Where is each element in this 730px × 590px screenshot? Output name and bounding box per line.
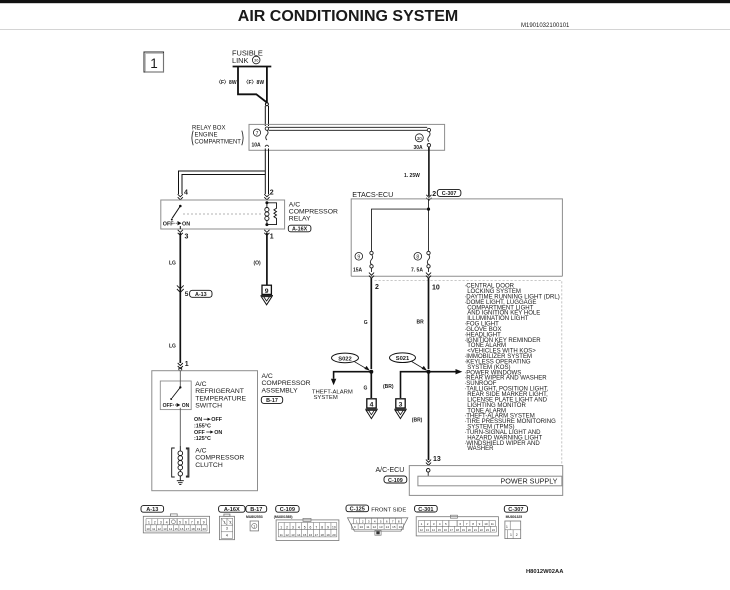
- svg-text:ON: ON: [182, 221, 190, 227]
- svg-text:8: 8: [197, 521, 199, 525]
- svg-text:OFF: OFF: [163, 403, 173, 409]
- svg-text:H8012W02AA: H8012W02AA: [526, 569, 564, 575]
- svg-text:A/C: A/C: [289, 201, 300, 208]
- wire (BR) to AC-ECU: [428, 372, 430, 460]
- load list text: [464, 284, 560, 453]
- svg-text:B-17: B-17: [250, 507, 262, 513]
- svg-text:1: 1: [506, 525, 508, 529]
- connector A-13: [141, 506, 164, 513]
- svg-text:4: 4: [166, 521, 168, 525]
- svg-text:10: 10: [484, 522, 488, 526]
- svg-text:COMPRESSOR: COMPRESSOR: [195, 455, 244, 462]
- svg-text:A-16X: A-16X: [292, 227, 308, 233]
- A/C compressor assembly box: [152, 371, 258, 491]
- svg-text:C-307: C-307: [442, 191, 457, 197]
- svg-text:16: 16: [309, 533, 313, 537]
- svg-text:3: 3: [160, 521, 162, 525]
- AC-ECU pin13 arrow: [426, 460, 431, 466]
- svg-text:20: 20: [332, 533, 336, 537]
- svg-text:C-307: C-307: [508, 507, 523, 513]
- svg-text:2: 2: [286, 526, 288, 530]
- temp switch box: [160, 381, 191, 410]
- wire: branch to relay pin4 (double line): [179, 171, 266, 194]
- svg-text:C-125: C-125: [350, 507, 365, 513]
- branch arrow to load list: [429, 369, 463, 374]
- svg-text:2: 2: [516, 533, 518, 537]
- fusible link symbol: [233, 67, 272, 104]
- svg-text:22: 22: [480, 528, 483, 532]
- svg-text:COMPRESSOR: COMPRESSOR: [262, 380, 311, 387]
- connector A-16X: [219, 506, 245, 513]
- svg-text:COMPARTMENT: COMPARTMENT: [195, 139, 242, 145]
- svg-text:2: 2: [270, 190, 274, 197]
- svg-text:16: 16: [444, 528, 447, 532]
- fuse 7 10A: [252, 127, 269, 149]
- svg-text:〈F〉8W: 〈F〉8W: [244, 80, 265, 86]
- svg-text:9: 9: [265, 288, 269, 295]
- svg-text:19: 19: [197, 527, 201, 531]
- svg-text:ON: ON: [182, 403, 190, 409]
- ECU exit arrows: [369, 273, 374, 279]
- svg-text:17: 17: [315, 533, 319, 537]
- svg-text:TEMPERATURE: TEMPERATURE: [195, 395, 246, 402]
- svg-text:LG: LG: [169, 260, 176, 266]
- temp spec text: [194, 417, 223, 442]
- svg-text:12: 12: [420, 528, 423, 532]
- svg-text:9: 9: [203, 521, 205, 525]
- svg-text:POWER SUPPLY: POWER SUPPLY: [501, 477, 558, 486]
- svg-text:18: 18: [321, 533, 325, 537]
- relay switch: [163, 205, 190, 229]
- svg-text:5: 5: [179, 521, 181, 525]
- svg-text:1: 1: [510, 533, 512, 537]
- temp switch label: [195, 381, 246, 410]
- svg-text:1: 1: [148, 521, 150, 525]
- ground 4: [365, 399, 378, 419]
- svg-text:REFRIGERANT: REFRIGERANT: [195, 388, 244, 395]
- svg-text:1. 25W: 1. 25W: [404, 173, 420, 179]
- svg-text:14: 14: [432, 528, 435, 532]
- svg-text:1: 1: [253, 525, 255, 529]
- svg-text:16: 16: [180, 527, 184, 531]
- junction dot G: [369, 370, 373, 374]
- wire (O) pin1 down: [266, 233, 268, 285]
- A/C-ECU box: [409, 466, 562, 496]
- relay name label: [289, 201, 338, 222]
- temp switch contacts: [163, 371, 190, 446]
- wire: fuse7 to relay pin2 (double line): [265, 149, 268, 195]
- svg-text:4: 4: [298, 526, 300, 530]
- svg-text:14: 14: [386, 525, 390, 529]
- ETACS pin2 entry arrow: [426, 195, 431, 201]
- connector code C-307: [437, 189, 461, 197]
- svg-text:16: 16: [399, 525, 403, 529]
- svg-text:4: 4: [370, 401, 374, 408]
- pin1 exit arrow: [264, 230, 269, 236]
- svg-text:8: 8: [321, 526, 323, 530]
- svg-text:8: 8: [416, 255, 419, 261]
- svg-text:15: 15: [438, 528, 441, 532]
- fuse 9 15A: [353, 251, 373, 273]
- svg-text:3: 3: [399, 401, 403, 408]
- ground 3: [394, 399, 407, 419]
- wire: fuse30 down to ETACS pin2: [428, 147, 430, 196]
- svg-text:5: 5: [304, 526, 306, 530]
- svg-text:12: 12: [158, 527, 162, 531]
- assembly label: [262, 373, 311, 394]
- svg-text:ON: ON: [214, 430, 222, 436]
- svg-text:1: 1: [150, 56, 158, 71]
- svg-text:19: 19: [326, 533, 330, 537]
- svg-text:ETACS-ECU: ETACS-ECU: [352, 190, 393, 199]
- svg-text:COMPRESSOR: COMPRESSOR: [289, 208, 338, 215]
- svg-text:S022: S022: [338, 356, 352, 362]
- svg-text:A-13: A-13: [146, 507, 158, 513]
- connector C-125: [346, 505, 369, 512]
- svg-text:3: 3: [185, 234, 189, 241]
- svg-text:23: 23: [486, 528, 489, 532]
- svg-text:〈F〉8W: 〈F〉8W: [216, 80, 237, 86]
- wire LG pin3 down: [179, 233, 181, 363]
- assembly pin1 entry: [178, 363, 183, 369]
- svg-text:G: G: [364, 320, 368, 326]
- svg-text:13: 13: [163, 527, 167, 531]
- svg-text:A/C: A/C: [195, 381, 206, 388]
- svg-text:10: 10: [360, 525, 364, 529]
- svg-text:36: 36: [254, 58, 259, 63]
- svg-text:19: 19: [462, 528, 465, 532]
- svg-text:CLUTCH: CLUTCH: [195, 462, 223, 469]
- junction: [427, 208, 430, 211]
- svg-text:2: 2: [375, 284, 379, 291]
- clutch ground: [177, 476, 184, 485]
- svg-text:MU802553: MU802553: [246, 515, 263, 519]
- battery feed wire (double line): [265, 103, 268, 126]
- connector C-301: [415, 505, 438, 512]
- svg-text:(BR): (BR): [412, 417, 423, 423]
- relay box (engine compartment) outline: [249, 124, 445, 150]
- svg-text:4: 4: [226, 533, 228, 537]
- svg-text:SWITCH: SWITCH: [195, 403, 222, 410]
- svg-text:WASHER: WASHER: [467, 446, 494, 452]
- svg-text:9: 9: [327, 526, 329, 530]
- svg-text:21: 21: [474, 528, 477, 532]
- svg-text:18: 18: [191, 527, 195, 531]
- svg-text:(BR): (BR): [383, 384, 394, 390]
- branch to ground 3: [401, 372, 429, 398]
- svg-text:6: 6: [310, 526, 312, 530]
- svg-text:OFF: OFF: [194, 430, 205, 436]
- fuse 8 7.5A: [411, 251, 430, 273]
- connector code A-16X: [288, 225, 311, 232]
- svg-text:(MU801585): (MU801585): [274, 515, 293, 519]
- svg-text:3: 3: [292, 526, 294, 530]
- svg-text:1: 1: [280, 526, 282, 530]
- svg-text:14: 14: [297, 533, 301, 537]
- pin3 exit arrow: [178, 230, 183, 236]
- svg-text:15: 15: [303, 533, 307, 537]
- svg-text:C-109: C-109: [280, 507, 295, 513]
- connector C-109: [276, 506, 299, 513]
- branch to theft-alarm: [331, 372, 371, 386]
- svg-text:1: 1: [270, 234, 274, 241]
- top border bar: [0, 0, 730, 3]
- svg-text:12: 12: [285, 533, 289, 537]
- load list bracket dashed: [375, 281, 562, 466]
- svg-text:2: 2: [230, 521, 232, 525]
- svg-text:SYSTEM: SYSTEM: [314, 395, 338, 401]
- svg-text:15A: 15A: [353, 267, 363, 273]
- svg-text:15: 15: [392, 525, 396, 529]
- svg-text:A/C-ECU: A/C-ECU: [376, 467, 405, 474]
- svg-text:S021: S021: [396, 356, 410, 362]
- svg-text:9: 9: [357, 255, 360, 261]
- svg-text:FRONT SIDE: FRONT SIDE: [371, 508, 406, 514]
- svg-text:A/C: A/C: [262, 373, 273, 380]
- svg-text:11: 11: [491, 522, 494, 526]
- svg-text:13: 13: [426, 528, 429, 532]
- wire G down: [370, 278, 372, 369]
- svg-text:AIR CONDITIONING SYSTEM: AIR CONDITIONING SYSTEM: [238, 8, 458, 25]
- svg-text:12: 12: [373, 525, 377, 529]
- svg-text:2: 2: [154, 521, 156, 525]
- svg-text:24: 24: [492, 528, 495, 532]
- svg-text:RELAY: RELAY: [289, 215, 311, 222]
- svg-text:5: 5: [185, 291, 189, 298]
- inline connector 5 (A-13): [177, 285, 184, 292]
- svg-text:6: 6: [185, 521, 187, 525]
- svg-text:M1901032100101: M1901032100101: [521, 23, 570, 29]
- svg-text:ENGINE: ENGINE: [195, 132, 218, 138]
- svg-text:OFF: OFF: [163, 221, 174, 227]
- svg-text:C-109: C-109: [388, 478, 403, 484]
- svg-text:18: 18: [456, 528, 459, 532]
- connector C-307: [504, 506, 527, 513]
- svg-text:10: 10: [432, 285, 440, 292]
- svg-text:BR: BR: [417, 320, 425, 326]
- svg-text:OFF: OFF: [211, 417, 222, 423]
- pin2 entry arrow: [264, 194, 269, 200]
- ground 9: [261, 285, 274, 305]
- svg-text:ON: ON: [194, 417, 202, 423]
- title underline: [0, 28, 730, 31]
- svg-text:17: 17: [186, 527, 190, 531]
- svg-text:7: 7: [191, 521, 193, 525]
- svg-text:B-17: B-17: [266, 398, 278, 404]
- svg-text:2: 2: [432, 191, 436, 198]
- svg-text:7: 7: [315, 526, 317, 530]
- power supply box: [418, 476, 562, 486]
- svg-text:3: 3: [226, 527, 228, 531]
- svg-text:20: 20: [203, 527, 207, 531]
- splice S021: [390, 353, 428, 371]
- pin4 entry arrow: [178, 194, 183, 200]
- junction dot BR: [427, 370, 431, 374]
- svg-text:11: 11: [366, 525, 369, 529]
- pin13 terminal: [426, 469, 430, 477]
- svg-text:11: 11: [280, 533, 283, 537]
- svg-text:4: 4: [184, 190, 188, 197]
- svg-text:10: 10: [146, 527, 150, 531]
- svg-text:LG: LG: [169, 344, 176, 350]
- svg-text:7: 7: [256, 131, 259, 137]
- connector code B-17: [261, 396, 282, 404]
- A/C compressor relay box: [161, 200, 285, 229]
- fusible link label: [232, 49, 263, 65]
- svg-text:RELAY BOX: RELAY BOX: [192, 125, 225, 131]
- svg-text::155°C: :155°C: [194, 423, 211, 429]
- splice S022: [332, 353, 370, 371]
- svg-text:C-301: C-301: [418, 507, 433, 513]
- svg-text:10A: 10A: [252, 143, 262, 149]
- relay dashed link: [183, 213, 263, 215]
- svg-text:30: 30: [417, 136, 423, 141]
- bus bar (double line) to fuse 30: [269, 127, 428, 130]
- svg-text:1: 1: [185, 361, 189, 368]
- svg-text:11: 11: [152, 527, 155, 531]
- svg-text:15: 15: [174, 527, 178, 531]
- svg-text:A-13: A-13: [195, 292, 207, 298]
- wire G to ground 4: [370, 372, 372, 398]
- svg-text:13: 13: [433, 456, 441, 463]
- svg-text:MU801325: MU801325: [506, 515, 523, 519]
- internal wiring: [372, 199, 429, 251]
- svg-text:10: 10: [332, 526, 336, 530]
- svg-text:ASSEMBLY: ASSEMBLY: [262, 387, 299, 394]
- theft-alarm label: [312, 389, 353, 401]
- svg-text:14: 14: [169, 527, 173, 531]
- relay box label: [192, 125, 243, 145]
- compressor clutch coil: [172, 446, 189, 477]
- wire BR down: [428, 278, 430, 369]
- svg-text:30A: 30A: [414, 145, 424, 151]
- svg-text:7. 5A: 7. 5A: [411, 267, 423, 273]
- figure number box 1: [144, 52, 164, 72]
- svg-text:LINK: LINK: [232, 56, 249, 65]
- connector code C-109: [384, 476, 407, 484]
- svg-text:1: 1: [224, 521, 226, 525]
- svg-text:13: 13: [291, 533, 295, 537]
- svg-text:13: 13: [379, 525, 383, 529]
- svg-text:A/C: A/C: [195, 447, 206, 454]
- connector B-17: [246, 506, 267, 513]
- relay coil: [265, 201, 277, 226]
- svg-text:(O): (O): [254, 260, 262, 266]
- svg-text::125°C: :125°C: [194, 436, 211, 442]
- svg-text:17: 17: [450, 528, 453, 532]
- svg-text:20: 20: [468, 528, 471, 532]
- svg-text:G: G: [364, 386, 368, 392]
- ETACS-ECU box: [351, 199, 562, 276]
- clutch label: [195, 447, 244, 468]
- fuse 30 30A: [414, 128, 431, 151]
- svg-text:A-16X: A-16X: [224, 507, 240, 513]
